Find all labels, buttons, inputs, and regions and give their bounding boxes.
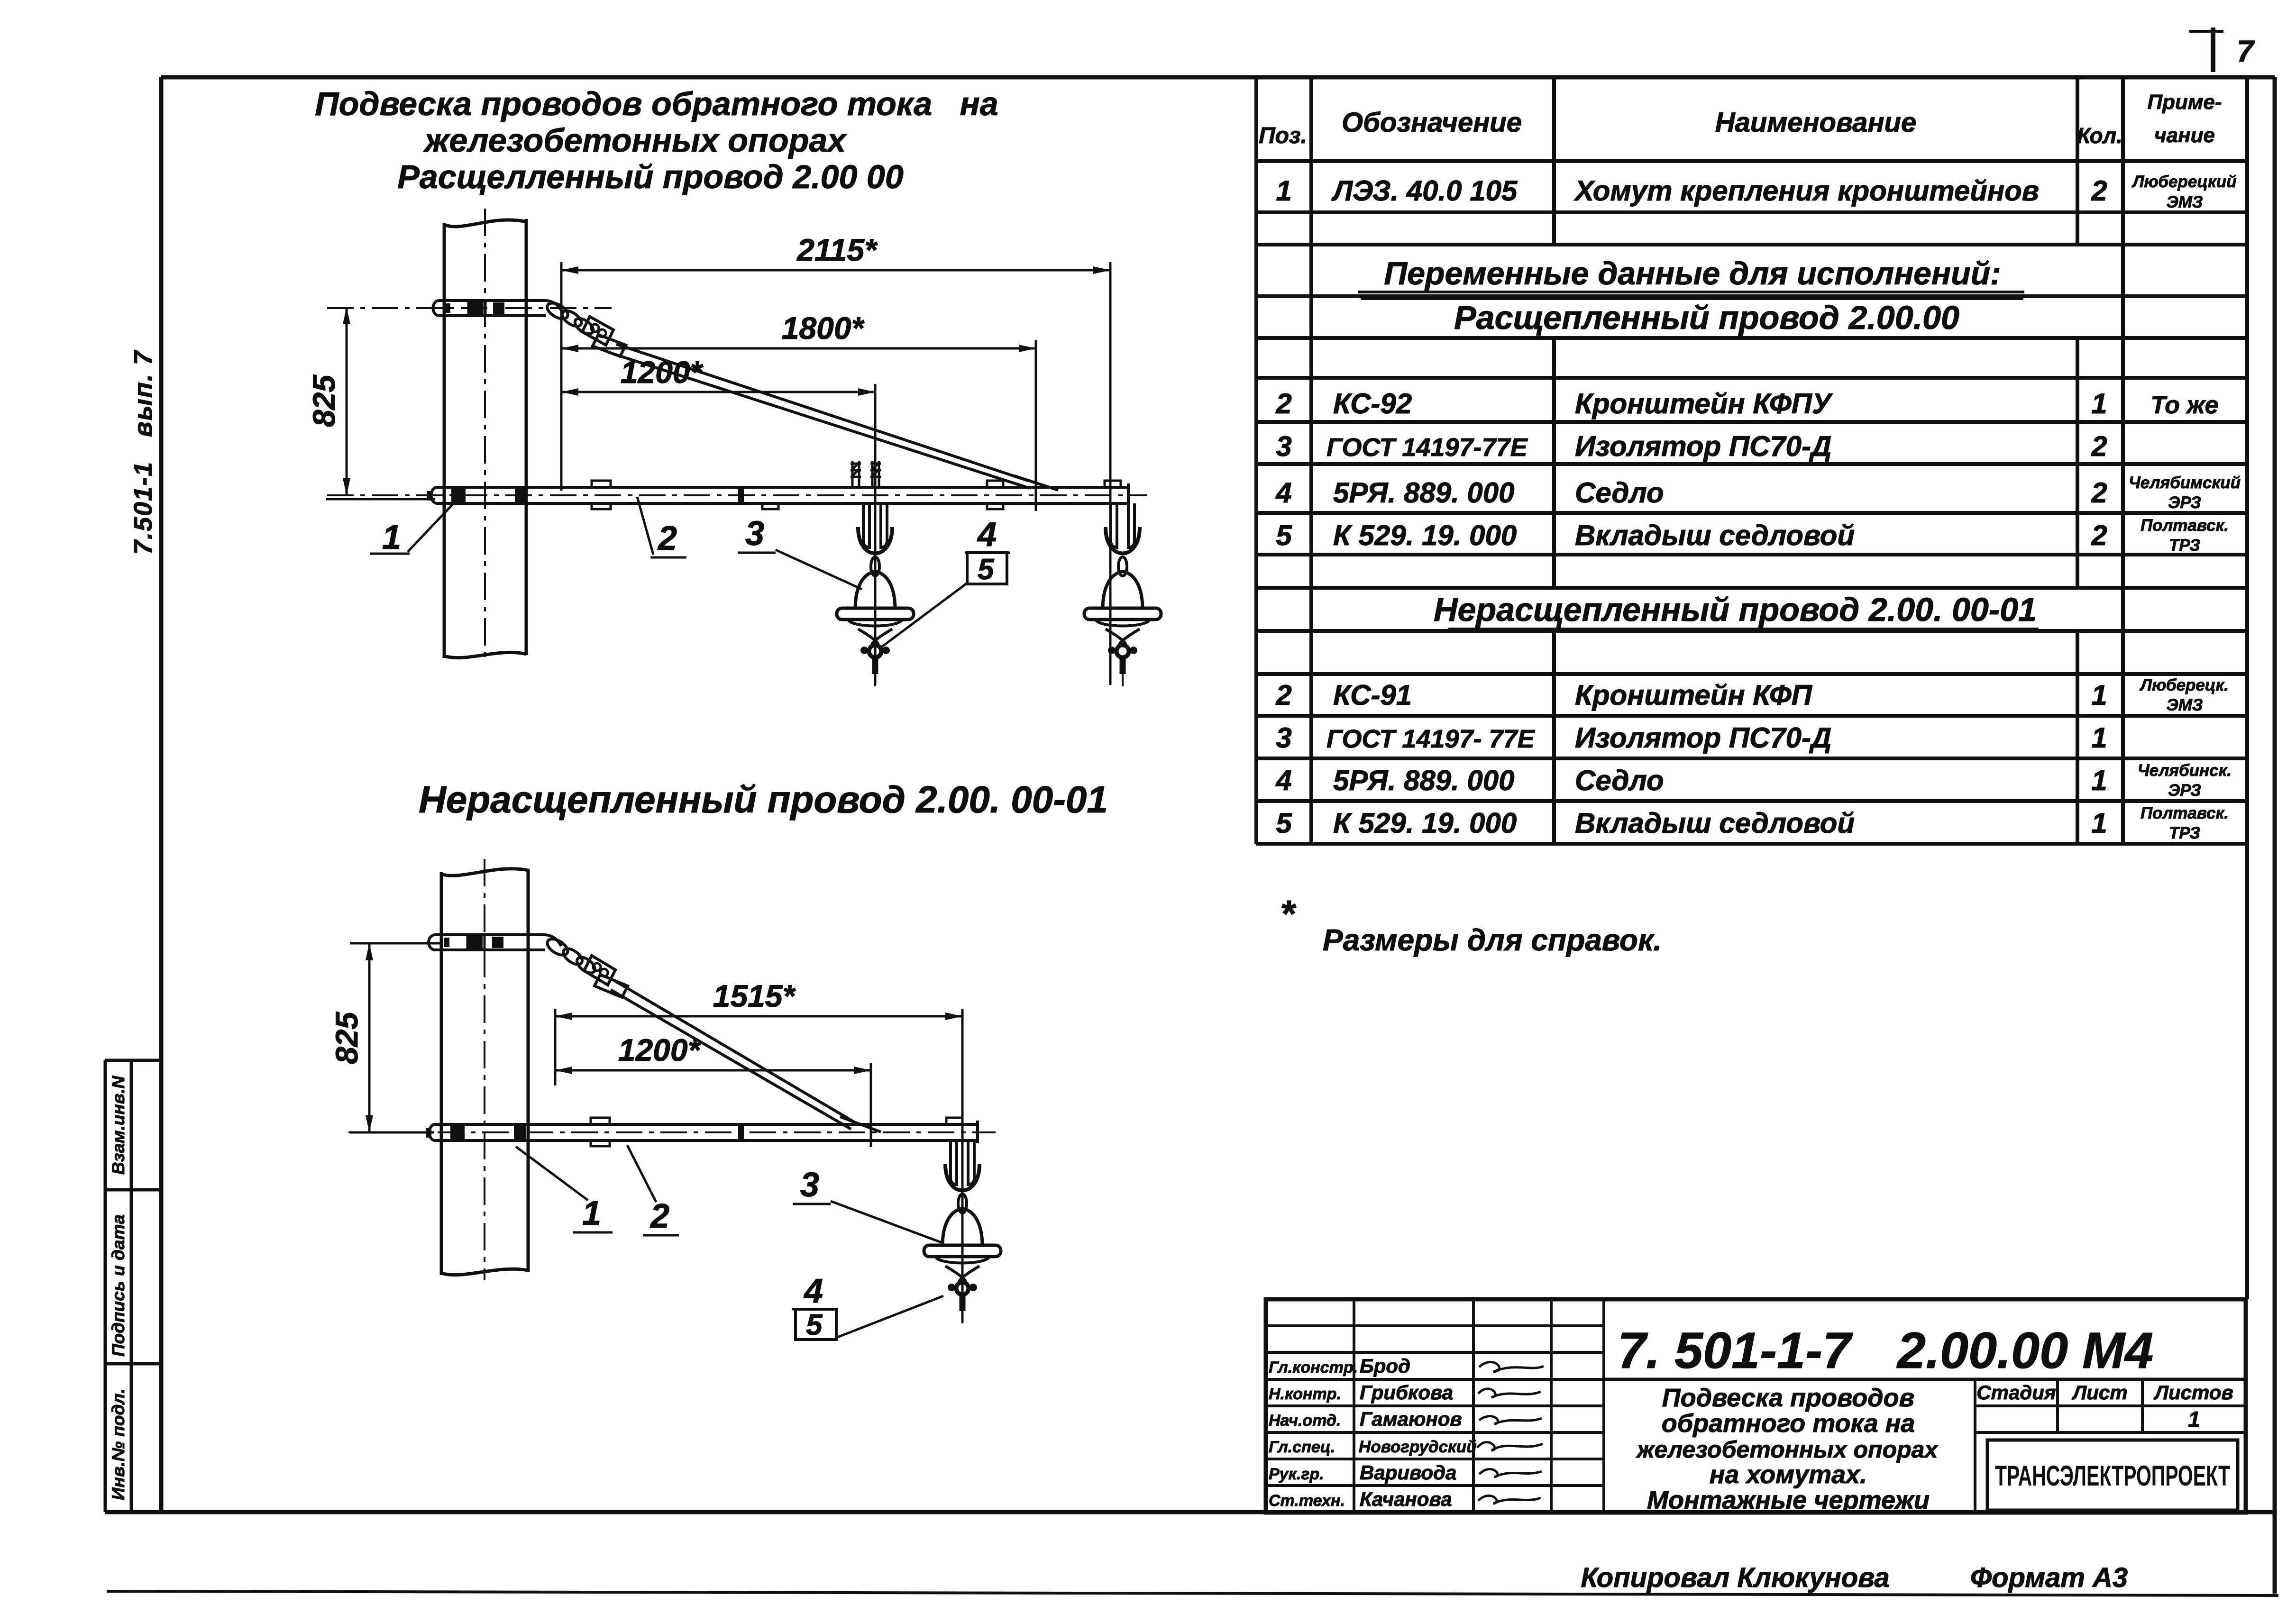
svg-text:ГОСТ 14197-77Е: ГОСТ 14197-77Е [1326, 433, 1528, 462]
svg-text:ГОСТ 14197- 77Е: ГОСТ 14197- 77Е [1326, 725, 1536, 753]
svg-text:Копировал Клюкунова: Копировал Клюкунова [1581, 1562, 1889, 1593]
position label 4 with box 5 (drawing 2) [792, 1272, 943, 1341]
svg-text:ЭМЗ: ЭМЗ [2167, 193, 2203, 211]
row 4b: saddle [1275, 765, 2107, 796]
arm centerline [327, 494, 1147, 496]
insulator B: insulator bell [1103, 572, 1143, 609]
signature role labels [1269, 1359, 1358, 1510]
svg-text:5: 5 [806, 1309, 823, 1341]
svg-text:Приме-: Приме- [2147, 91, 2222, 114]
position label 1 (drawing 1) [370, 496, 461, 556]
insulator dwg2: suspension shackle [951, 1140, 974, 1186]
insulator B: insulator skirt [1084, 608, 1161, 620]
svg-text:КС-92: КС-92 [1333, 388, 1412, 419]
insulator B: saddle eye [1116, 645, 1129, 657]
svg-text:Челябимский: Челябимский [2129, 474, 2241, 492]
left margin stamp table [105, 1060, 161, 1512]
row 1: clamp [1276, 175, 2107, 207]
svg-text:Рук.гр.: Рук.гр. [1269, 1465, 1324, 1483]
svg-text:ТРЗ: ТРЗ [2169, 824, 2200, 842]
organization box [1987, 1440, 2238, 1510]
svg-text:Переменные данные для испол: Переменные данные для исполнений: [1384, 255, 2001, 292]
svg-text:3: 3 [800, 1166, 819, 1204]
svg-text:1: 1 [2188, 1407, 2200, 1432]
svg-text:1: 1 [2091, 679, 2107, 711]
bracket arm item 2 (drawing 2) [430, 1121, 978, 1143]
vertical column lines [1256, 77, 2247, 844]
diagonal strut (drawing 1) [613, 344, 1058, 490]
svg-text:ТРАНСЭЛЕКТРОПРОЕКТ: ТРАНСЭЛЕКТРОПРОЕКТ [1995, 1460, 2230, 1492]
dimension 1200* [561, 355, 875, 685]
svg-text:Изолятор ПС70-Д: Изолятор ПС70-Д [1575, 430, 1831, 462]
svg-text:Наименование: Наименование [1715, 107, 1916, 138]
svg-text:2: 2 [649, 1197, 669, 1235]
svg-text:4: 4 [1275, 765, 1291, 796]
svg-text:железобетонных опорах: железобетонных опорах [423, 122, 847, 159]
insulator dwg2: insulator bell [942, 1209, 982, 1246]
svg-text:Размеры для справок.: Размеры для справок. [1323, 923, 1662, 957]
left margin stamp labels (rotated) [109, 1076, 128, 1500]
svg-text:4: 4 [1275, 477, 1291, 509]
svg-text:Кол.: Кол. [2077, 123, 2122, 148]
svg-text:чание: чание [2154, 124, 2215, 147]
svg-text:1515*: 1515* [713, 978, 796, 1013]
svg-text:1200*: 1200* [621, 355, 704, 390]
svg-text:2: 2 [1275, 679, 1291, 711]
svg-text:Обозначение: Обозначение [1342, 107, 1522, 138]
svg-text:Кронштейн КФП: Кронштейн КФП [1575, 679, 1813, 711]
svg-text:3: 3 [1276, 722, 1291, 754]
svg-text:Нерасщепленный провод 2.00. 0: Нерасщепленный провод 2.00. 00-01 [419, 778, 1108, 821]
svg-text:Расщелленный провод 2.00 00: Расщелленный провод 2.00 00 [397, 158, 904, 195]
drawing name box [1974, 1379, 1976, 1513]
title block outer box [1266, 1299, 2246, 1513]
row 5b: saddle insert [1276, 807, 2107, 839]
arm clamp bolts at pole (drawing 2) [426, 1125, 526, 1140]
insulator B: pin stub [1120, 657, 1126, 674]
svg-text:Подпись и дата: Подпись и дата [109, 1214, 128, 1357]
swivel joint (drawing 2) [545, 936, 628, 997]
svg-text:2: 2 [2091, 175, 2107, 207]
svg-text:ТРЗ: ТРЗ [2169, 536, 2200, 555]
svg-text:5: 5 [1276, 807, 1292, 839]
svg-text:ЭРЗ: ЭРЗ [2168, 493, 2201, 512]
svg-text:5: 5 [1276, 520, 1292, 551]
page number mark top right [2189, 27, 2255, 72]
svg-text:То же: То же [2150, 392, 2218, 419]
upper clamp axis line [327, 307, 612, 309]
svg-text:Взам.инв.N: Взам.инв.N [109, 1076, 128, 1175]
stage/sheet cells [1975, 1379, 2246, 1432]
insulator A: saddle eye [869, 645, 881, 657]
svg-text:5: 5 [978, 553, 995, 586]
row 3: insulator [1276, 430, 2107, 462]
svg-text:1200*: 1200* [618, 1032, 702, 1067]
insulator A: pin stub [872, 657, 878, 674]
dimension 825 (drawing 1) [306, 307, 435, 499]
svg-text:Листов: Листов [2153, 1381, 2233, 1404]
svg-text:КС-91: КС-91 [1333, 679, 1412, 711]
row 4: saddle [1275, 477, 2107, 509]
svg-text:Инв.№ подл.: Инв.№ подл. [109, 1388, 128, 1500]
signature names [1359, 1355, 1477, 1510]
svg-text:Поз.: Поз. [1259, 123, 1307, 148]
svg-text:ЭМЗ: ЭМЗ [2167, 696, 2203, 714]
svg-text:Вкладыш седловой: Вкладыш седловой [1575, 520, 1855, 551]
svg-text:Изолятор ПС70-Д: Изолятор ПС70-Д [1575, 722, 1831, 754]
dimension 825 (drawing 2) [329, 943, 440, 1132]
svg-text:7.501-1 вып. 7: 7.501-1 вып. 7 [129, 349, 157, 555]
svg-text:Челябинск.: Челябинск. [2138, 761, 2232, 780]
svg-text:ЭРЗ: ЭРЗ [2168, 781, 2201, 800]
insulator A: saddle pin [858, 629, 892, 644]
svg-text:Подвеска проводов: Подвеска проводов [1662, 1384, 1914, 1412]
row 2: bracket KS-92 [1275, 388, 2218, 419]
svg-text:Н.контр.: Н.контр. [1269, 1385, 1341, 1403]
insulator A: link [871, 557, 879, 576]
svg-text:1: 1 [2091, 807, 2107, 839]
pole centerline (drawing 2) [484, 859, 485, 1280]
position label 3 (drawing 1) [738, 515, 862, 589]
section heading: variable data [1384, 255, 2001, 292]
insulator dwg2: pin stub [960, 1294, 966, 1311]
svg-text:Стадия: Стадия [1976, 1381, 2056, 1404]
svg-text:2: 2 [657, 520, 677, 557]
arm clamp bolts at pole [427, 488, 527, 502]
bracket arm item 2 [431, 483, 1129, 506]
svg-text:К 529. 19. 000: К 529. 19. 000 [1333, 807, 1517, 839]
svg-text:2115*: 2115* [796, 232, 878, 267]
arm centerline (drawing 2) [348, 1131, 996, 1133]
row 2b: bracket KS-91 [1275, 679, 2107, 711]
insulator dwg2: clevis [945, 1164, 979, 1191]
sheet bottom edge line [107, 1591, 2278, 1596]
svg-text:Кронштейн КФПУ: Кронштейн КФПУ [1575, 388, 1833, 419]
svg-text:7. 501-1-7: 7. 501-1-7 [1618, 1322, 1853, 1379]
svg-text:Подвеска проводов обратного: Подвеска проводов обратного тока на [315, 85, 998, 122]
svg-text:2: 2 [2091, 477, 2107, 509]
svg-text:Лист: Лист [2071, 1381, 2127, 1404]
svg-text:Ст.техн.: Ст.техн. [1269, 1492, 1345, 1510]
svg-text:Седло: Седло [1575, 477, 1664, 509]
svg-text:1: 1 [382, 519, 401, 556]
insulator B: link [1118, 557, 1127, 576]
insulator B: clevis [1106, 527, 1140, 554]
svg-text:Нерасщепленный провод 2.00.: Нерасщепленный провод 2.00. 00-01 [1434, 591, 2037, 628]
svg-text:К 529. 19. 000: К 529. 19. 000 [1333, 520, 1517, 551]
svg-text:1: 1 [1276, 175, 1291, 207]
position label 4 with box 5 (drawing 1) [881, 516, 1010, 647]
svg-text:Монтажные чертежи: Монтажные чертежи [1647, 1486, 1930, 1514]
svg-text:Варивода: Варивода [1360, 1461, 1456, 1484]
svg-text:на хомутах.: на хомутах. [1710, 1460, 1867, 1489]
upper clamp item 1 (drawing 2) [429, 935, 561, 950]
insulator dwg2: saddle pin [945, 1266, 979, 1281]
svg-text:2.00.00 М4: 2.00.00 М4 [1896, 1322, 2153, 1379]
horizontal row lines [1256, 161, 2247, 844]
svg-text:железобетонных опорах: железобетонных опорах [1636, 1436, 1939, 1463]
svg-text:2: 2 [2091, 430, 2107, 462]
svg-text:4: 4 [977, 516, 997, 554]
position label 2 (drawing 2) [627, 1145, 679, 1235]
svg-text:5РЯ. 889. 000: 5РЯ. 889. 000 [1333, 477, 1515, 509]
svg-text:Люберецк.: Люберецк. [2139, 676, 2229, 694]
svg-text:825: 825 [306, 374, 341, 427]
svg-text:*: * [1280, 893, 1297, 935]
small fittings along arm [592, 481, 1121, 509]
svg-text:Новогрудский: Новогрудский [1359, 1438, 1477, 1456]
svg-text:2: 2 [2091, 520, 2107, 551]
fittings along arm (drawing 2) [591, 1118, 962, 1146]
section heading: split wire 2.00.00 [1454, 299, 1959, 336]
dimension 1515* [555, 978, 962, 1322]
svg-text:2: 2 [1275, 388, 1291, 419]
position label 2 (drawing 1) [637, 497, 686, 557]
diagonal strut (drawing 2) [611, 981, 881, 1132]
svg-text:Качанова: Качанова [1360, 1488, 1452, 1510]
footer: copied by / format [1581, 1562, 2128, 1593]
svg-text:Седло: Седло [1575, 765, 1664, 796]
svg-text:Гл.констр.: Гл.констр. [1269, 1359, 1358, 1377]
svg-text:Формат А3: Формат А3 [1970, 1562, 2128, 1593]
svg-text:Полтавск.: Полтавск. [2140, 516, 2229, 535]
svg-text:3: 3 [745, 515, 764, 553]
svg-text:1: 1 [2091, 722, 2107, 754]
insulator B: saddle pin [1106, 629, 1140, 644]
position label 1 (drawing 2) [516, 1147, 613, 1232]
svg-text:1: 1 [2091, 388, 2107, 419]
concrete pole (drawing 1) [444, 219, 526, 658]
svg-text:Грибкова: Грибкова [1360, 1381, 1453, 1404]
table header [1259, 107, 2122, 148]
concrete pole (drawing 2) [441, 869, 528, 1275]
svg-text:1: 1 [2091, 765, 2107, 796]
insulator dwg2: saddle eye [956, 1282, 969, 1295]
svg-text:Гл.спец.: Гл.спец. [1269, 1438, 1335, 1456]
svg-text:825: 825 [329, 1012, 364, 1064]
svg-text:Расщепленный провод 2.00.00: Расщепленный провод 2.00.00 [1454, 299, 1959, 336]
title block grid: signature section [1266, 1299, 1604, 1513]
svg-text:обратного тока на: обратного тока на [1662, 1409, 1915, 1438]
document code band [1604, 1378, 2246, 1381]
signatures squiggles [1477, 1362, 1544, 1504]
insulator A: insulator bell [855, 572, 895, 609]
dimension 2115* [561, 232, 1110, 685]
svg-text:Люберецкий: Люберецкий [2131, 173, 2237, 191]
svg-text:Полтавск.: Полтавск. [2140, 804, 2229, 822]
svg-text:Хомут крепления кронштейнов: Хомут крепления кронштейнов [1573, 175, 2039, 207]
row 5: saddle insert [1276, 520, 2107, 551]
pole centerline [484, 209, 486, 664]
insulator A: insulator skirt [837, 608, 914, 620]
insulator B: suspension shackle [1111, 503, 1134, 549]
strut attachment nuts on arm [851, 461, 881, 486]
insulator A: clevis [858, 527, 892, 554]
dimension 1800* [561, 310, 1036, 511]
position label 3 (drawing 2) [793, 1166, 942, 1243]
insulator A: suspension shackle [863, 503, 887, 549]
svg-text:7: 7 [2237, 34, 2255, 68]
svg-text:Гамаюнов: Гамаюнов [1360, 1408, 1462, 1430]
insulator dwg2: insulator skirt [924, 1245, 1001, 1257]
dimension 1200* (drawing 2) [555, 1032, 871, 1147]
svg-text:1: 1 [582, 1194, 601, 1232]
svg-text:4: 4 [803, 1272, 823, 1310]
row 3b: insulator [1276, 722, 2107, 754]
insulator dwg2: link [958, 1194, 967, 1213]
drawing 1 title [315, 85, 998, 195]
swivel joint and shackle links [545, 300, 626, 356]
reference note [1280, 893, 1662, 957]
svg-text:ЛЭЗ. 40.0 105: ЛЭЗ. 40.0 105 [1331, 175, 1518, 207]
upper clamp item 1 [433, 301, 563, 316]
svg-text:1800*: 1800* [782, 310, 865, 346]
section heading: unsplit wire 2.00.00-01 [1434, 591, 2037, 628]
svg-text:3: 3 [1276, 430, 1291, 462]
svg-text:Нач.отд.: Нач.отд. [1269, 1412, 1341, 1430]
svg-text:5РЯ. 889. 000: 5РЯ. 889. 000 [1333, 765, 1515, 796]
right edge continuation down to title block [2245, 844, 2249, 1299]
svg-text:Вкладыш седловой: Вкладыш седловой [1575, 807, 1855, 839]
table grid [1256, 77, 2247, 1299]
svg-text:Брод: Брод [1360, 1355, 1410, 1377]
